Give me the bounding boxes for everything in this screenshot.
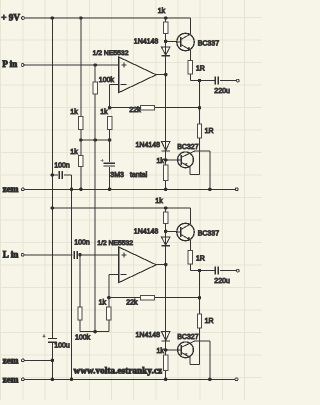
resistor 22k feedback L [140, 295, 154, 300]
wire feedback shunt to bias node [109, 129, 111, 140]
svg-text:100k: 100k [75, 334, 91, 341]
svg-text:1R: 1R [196, 65, 205, 72]
transistor Q2 BC327 [178, 152, 194, 168]
svg-text:1N4148: 1N4148 [136, 142, 161, 149]
svg-text:1k: 1k [158, 8, 166, 15]
svg-text:tantal: tantal [130, 172, 148, 179]
svg-text:L in: L in [3, 249, 19, 259]
node junction feedback [108, 106, 112, 110]
diode 1N4148 lower L [161, 332, 170, 341]
wire op-amp inverting input [110, 83, 119, 85]
node junction BC327 collector L [208, 378, 212, 382]
wire 3M3 leg [109, 140, 111, 162]
wire BC327 emitter hook L [199, 328, 201, 364]
svg-text:100k: 100k [99, 77, 115, 84]
node junction bias divider mid [79, 138, 83, 142]
resistor 1k bias bottom L [164, 355, 168, 371]
node junction ground link [70, 188, 74, 192]
node junction feedback tap L [198, 296, 202, 300]
node output terminal [236, 79, 239, 82]
wire op-amp output L [156, 264, 166, 266]
node junction bias node [93, 138, 97, 142]
node +9V terminal [22, 17, 25, 20]
wire feedback vertical [109, 84, 111, 107]
capacitor 100n supply decoupling [52, 174, 58, 176]
diode 1N4148 upper [161, 47, 170, 55]
resistor 100k L input bias [78, 307, 82, 320]
node junction divider bottom [79, 188, 83, 192]
node junction L in / R 100k [78, 253, 82, 256]
node junction L rail feed [51, 206, 55, 210]
wire bias net vertical [94, 65, 96, 332]
op-amp U1A 1/2 NE5532 [119, 57, 157, 93]
svg-text:1k: 1k [70, 149, 78, 156]
svg-text:1k: 1k [155, 198, 163, 205]
wire bias chain vertical L [165, 208, 167, 379]
node junction bias / feedback leg [108, 138, 112, 142]
wire 1R to output node L [189, 264, 191, 271]
node output terminal L [236, 269, 239, 272]
wire ground rail L [24, 378, 235, 380]
resistor 1k bias bottom [164, 165, 168, 181]
node junction zem 2 [51, 359, 55, 363]
wire BC327 collector to ground [195, 150, 210, 152]
svg-text:zem: zem [3, 184, 19, 194]
wire feedback shunt legs L [108, 298, 110, 307]
svg-text:1/2 NE5532: 1/2 NE5532 [93, 50, 129, 57]
svg-text:1R: 1R [205, 318, 214, 325]
wire BC337 emitter to 1R L [189, 240, 191, 251]
svg-text:+ 9V: + 9V [1, 13, 20, 23]
wire 1R to output node [189, 74, 191, 81]
wire ground link vertical [71, 175, 73, 379]
resistor 22k feedback [140, 105, 154, 110]
node junction bias chain bottom [164, 188, 168, 192]
diode 1N4148 lower [161, 142, 170, 151]
node junction bias chain bottom L [164, 378, 168, 382]
wire BC327 emitter hook [199, 138, 201, 174]
resistor 1k bias top L [164, 212, 168, 223]
transistor Q3 BC337 [177, 223, 194, 240]
wire ground rail P [24, 188, 236, 190]
svg-text:100u: 100u [54, 342, 70, 349]
svg-text:22k: 22k [126, 300, 138, 307]
node junction BC327 base tap L [164, 348, 168, 352]
node junction bias chain top [164, 16, 168, 20]
svg-text:1k: 1k [157, 348, 165, 355]
svg-text:220u: 220u [214, 278, 230, 285]
svg-text:1N4148: 1N4148 [136, 332, 161, 339]
svg-text:100n: 100n [54, 162, 70, 169]
capacitor 220u output [214, 77, 216, 85]
wire L input [24, 254, 73, 256]
wire BC337 base L [166, 230, 177, 232]
node junction L bias joint [93, 330, 97, 334]
wire +9V rail L [52, 207, 190, 209]
svg-text:1R: 1R [196, 255, 205, 262]
node zem terminal 2 [22, 359, 25, 362]
node zem terminal 3 [22, 378, 25, 381]
node junction op-amp output [164, 73, 168, 77]
node junction 3M3 ground [108, 188, 112, 192]
svg-text:1k: 1k [70, 109, 78, 116]
svg-text:100n: 100n [74, 239, 90, 246]
node L in terminal [21, 253, 24, 256]
svg-text:22k: 22k [129, 107, 141, 114]
svg-text:zem: zem [3, 375, 19, 385]
svg-text:1k: 1k [99, 300, 107, 307]
node junction BC327 collector [208, 188, 212, 192]
svg-text:BC327: BC327 [177, 334, 199, 341]
node P in terminal [21, 64, 24, 67]
svg-text:1k: 1k [100, 109, 108, 116]
svg-text:BC337: BC337 [198, 41, 220, 48]
node junction feedback tap [198, 106, 202, 110]
wire bias node horizontal [81, 139, 110, 141]
wire 100k leg [79, 255, 81, 307]
wire zem 2 [24, 359, 52, 361]
wire BC327 base [166, 159, 178, 161]
node ground terminal L [235, 378, 238, 381]
svg-text:P in: P in [2, 59, 17, 69]
capacitor 220u output L [214, 267, 216, 275]
node junction P in / R 100k [93, 63, 97, 67]
wire BC337 collector to +9V [189, 18, 191, 34]
wire BC337 emitter to 1R [189, 50, 191, 61]
svg-text:1k: 1k [157, 158, 165, 165]
node junction +9V feed [51, 16, 55, 20]
node junction 100n at +9V feed [51, 173, 55, 177]
wire 100n to op-amp [79, 254, 119, 256]
resistor 1k bias top [164, 22, 168, 33]
wire BC327 collector to ground L [195, 340, 210, 342]
wire 3M3 to ground rail [109, 167, 111, 189]
node junction BC337 base tap [164, 40, 168, 44]
wire op-amp output [156, 74, 166, 76]
svg-text:zem: zem [3, 356, 19, 366]
resistor 1R output lower [197, 124, 201, 138]
node junction ground link bottom [70, 378, 74, 382]
wire op-amp inverting input L [109, 273, 119, 275]
svg-text:BC337: BC337 [198, 231, 220, 238]
node junction op-amp output L [164, 263, 168, 267]
resistor 1R output lower L [197, 314, 201, 328]
node junction BC327 base tap [164, 158, 168, 162]
resistor 100k P input bias [93, 82, 97, 94]
svg-text:1N4148: 1N4148 [134, 38, 159, 45]
wire P input [24, 64, 119, 66]
wire feedback vertical L [108, 274, 110, 297]
node junction output node L [198, 269, 202, 273]
capacitor 100u supply [48, 337, 57, 339]
node junction supply cap ground [51, 378, 55, 382]
resistor 1k feedback shunt [107, 116, 111, 129]
svg-text:220u: 220u [214, 88, 230, 95]
resistor 1R output upper [188, 60, 192, 74]
op-amp U1B 1/2 NE5532 [119, 247, 157, 283]
node ground terminal P [235, 188, 238, 191]
svg-text:BC327: BC327 [177, 144, 199, 151]
wire 22k feedback horizontal [110, 107, 200, 109]
wire output node to feedback L [199, 271, 201, 314]
wire bias chain vertical [165, 18, 167, 189]
wire BC337 base [166, 40, 177, 42]
wire divider vertical [80, 18, 82, 189]
node zem terminal [22, 188, 25, 191]
resistor 1R output upper L [188, 250, 192, 264]
resistor 1k divider upper [79, 116, 83, 129]
svg-text:3M3: 3M3 [110, 172, 124, 179]
transistor Q4 BC327 [178, 342, 194, 358]
svg-text:1/2 NE5532: 1/2 NE5532 [97, 240, 133, 247]
wire BC337 collector to +9V L [189, 208, 191, 224]
capacitor 3M3 tantal [104, 162, 115, 164]
svg-text:www.volta.estranky.cz: www.volta.estranky.cz [74, 367, 163, 377]
node junction L bias chain top [164, 206, 168, 210]
node junction output node [198, 79, 202, 83]
wire +9V rail top [24, 17, 190, 19]
wire +9V vertical feed rail [51, 18, 53, 338]
resistor 1k divider lower [79, 156, 83, 167]
wire 22k feedback horizontal L [109, 297, 200, 299]
node junction BC337 base tap L [164, 230, 168, 234]
node junction divider top [79, 16, 83, 20]
wire 100u to ground [51, 343, 53, 380]
diode 1N4148 upper L [161, 237, 170, 245]
wire output node to feedback [199, 81, 201, 124]
svg-text:1R: 1R [205, 128, 214, 135]
svg-text:1N4148: 1N4148 [134, 228, 159, 235]
transistor Q1 BC337 [177, 33, 194, 50]
wire L bias joint [80, 331, 109, 333]
wire BC327 base L [166, 349, 178, 351]
capacitor 100n input coupling [73, 251, 75, 259]
resistor 1k feedback shunt L [107, 307, 111, 320]
node junction feedback L [107, 296, 111, 300]
